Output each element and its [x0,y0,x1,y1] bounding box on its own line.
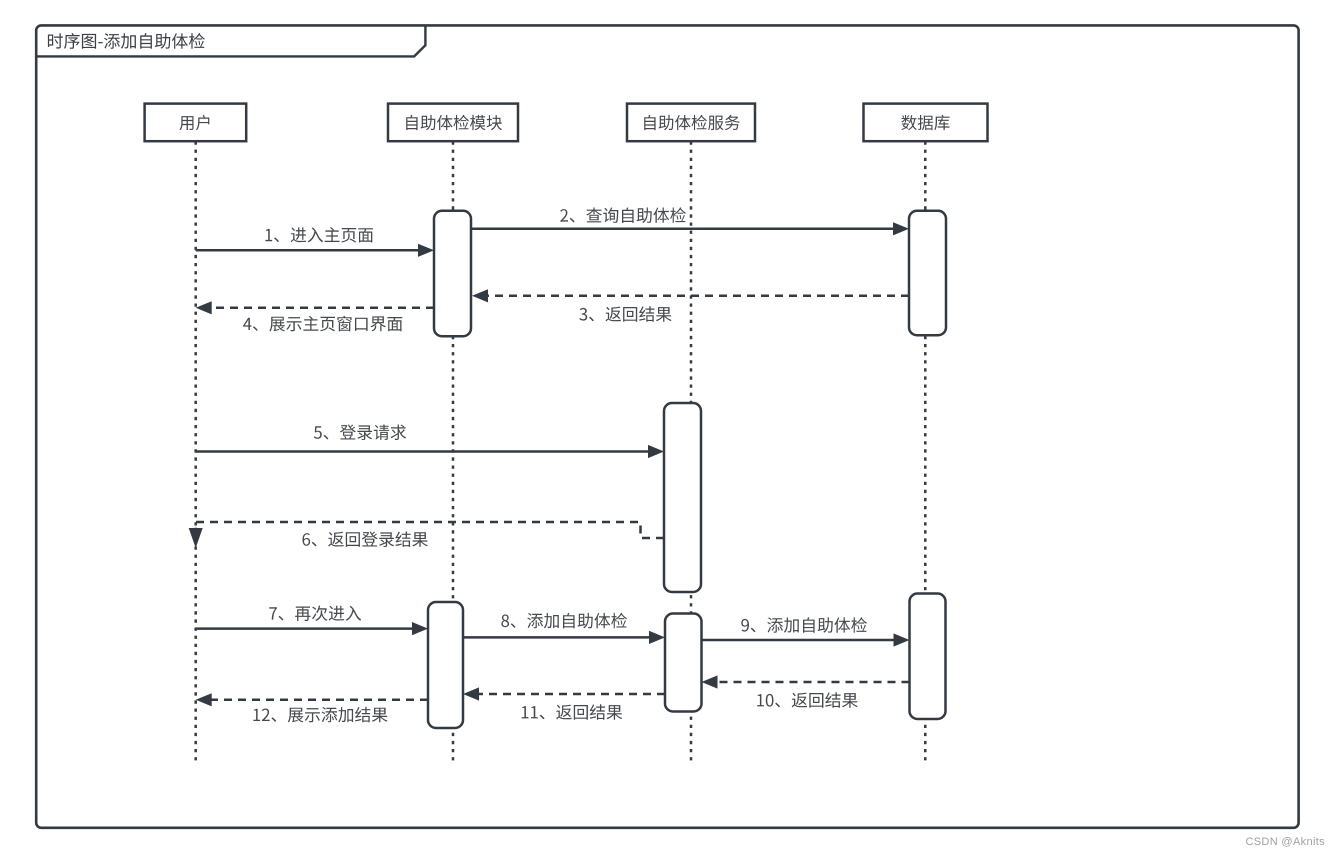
msg8 solid 8、添加自助体检 [463,636,650,639]
svg-text:CSDN @Aknits: CSDN @Aknits [1245,836,1325,848]
head box 自助体检模块 [388,104,518,142]
head box 用户 [145,104,247,142]
activation 服务 big (A3) [664,403,701,592]
frame title tab [36,26,425,56]
msg6 dashed 6、返回登录结果 (with jog) [196,522,664,538]
msg10 dashed 10、返回结果 [717,681,910,684]
activation 数据库 (A2) [909,211,946,335]
activation 模块 bottom (A4) [428,602,463,728]
lifelines (dotted) [194,142,197,763]
head box 自助体检服务 [627,104,755,142]
msg1 solid 1、进入主页面 [196,249,419,252]
msg12 dashed 12、展示添加结果 [211,699,428,702]
title text 时序图-添加自助体检 [48,33,205,49]
msg3 dashed 3、返回结果 [487,295,909,298]
msg9 solid 9、添加自助体检 [702,639,895,642]
msg4 dashed 4、展示主页窗口界面 [211,307,434,310]
msg5 solid 5、登录请求 [196,450,649,453]
activation 数据库 bottom (A6) [910,594,946,720]
activation 用户->模块 (A1) [434,211,471,336]
head box 数据库 [864,104,988,142]
msg7 solid 7、再次进入 [196,627,413,630]
activation 服务 bottom (A5) [665,614,702,712]
msg11 dashed 11、返回结果 [478,693,665,696]
msg2 solid 2、查询自助体检 [472,228,894,231]
